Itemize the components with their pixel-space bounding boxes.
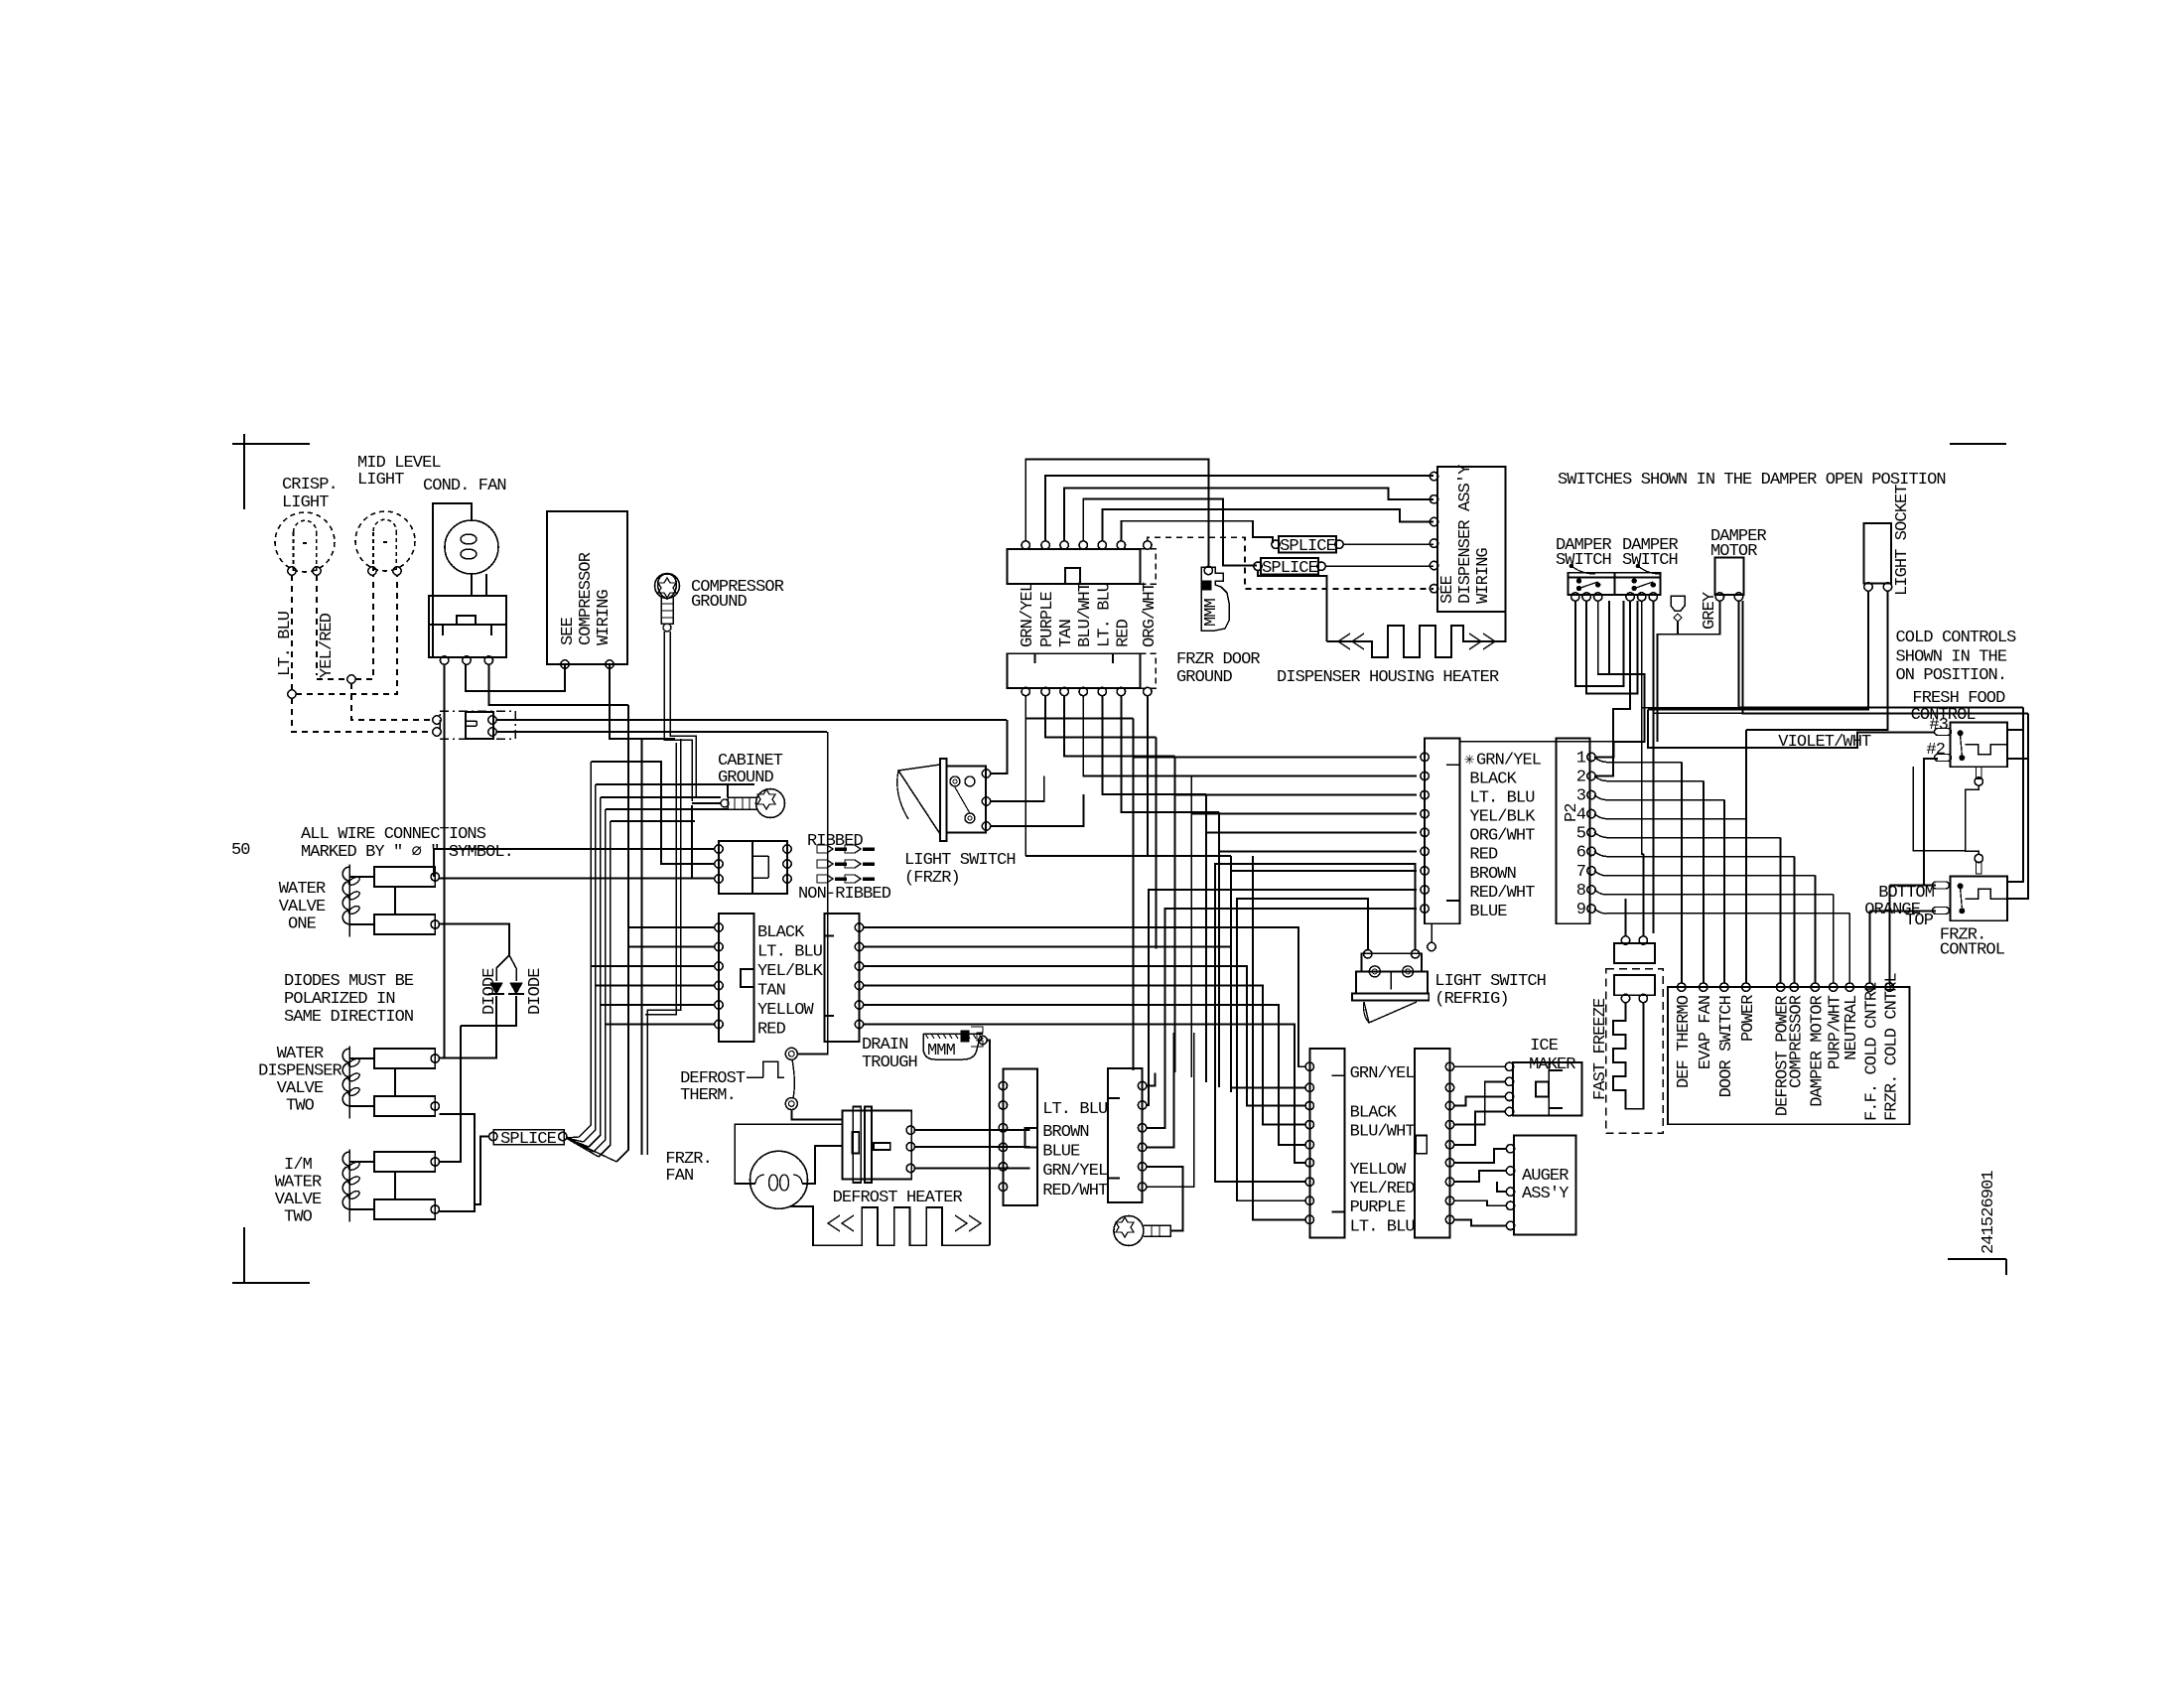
svg-text:ORG/WHT: ORG/WHT [1141,582,1160,647]
svg-text:PURPLE: PURPLE [1350,1198,1407,1217]
svg-text:BROWN: BROWN [1469,865,1516,884]
svg-text:WATER: WATER [275,1174,322,1193]
svg-text:BLU/WHT: BLU/WHT [1076,582,1095,647]
wire damper switch t6 long drop [1652,713,1654,933]
svg-text:SPLICE: SPLICE [1280,537,1336,556]
wire damper t4 down [1595,601,1630,776]
ground lug (evap ground) [1114,1216,1144,1246]
wire ribbed pin2 left [661,807,715,864]
svg-text:SEE: SEE [559,617,578,645]
svg-text:DISPENSER ASS'Y: DISPENSER ASS'Y [1456,465,1475,604]
svg-text:MARKED BY " ⌀ " SYMBOL.: MARKED BY " ⌀ " SYMBOL. [301,843,513,862]
svg-text:EVAP FAN: EVAP FAN [1697,996,1715,1069]
wire crisp light right dashed down [316,575,318,675]
svg-text:VALVE: VALVE [275,1191,322,1209]
svg-text:7: 7 [1576,863,1585,882]
svg-text:LT. BLU: LT. BLU [1042,1100,1107,1119]
svg-text:#2: #2 [1926,741,1945,760]
svg-text:NON-RIBBED: NON-RIBBED [798,885,891,904]
svg-text:WIRING: WIRING [1474,547,1493,604]
resistor defrost heater element [813,1207,990,1245]
wire light switch frzr t1 [991,720,1008,774]
wire corridor hook 5 [611,820,695,822]
wire bottom terminal left [1890,885,1937,887]
svg-text:DIODES MUST BE: DIODES MUST BE [284,972,414,991]
connector P2 [1556,738,1589,923]
wire valve one bottom to diode pair [440,924,510,956]
wire terminal board risers [1681,763,1683,983]
svg-text:LT. BLU: LT. BLU [757,943,822,962]
svg-text:YEL/RED: YEL/RED [1350,1180,1416,1198]
wire light switch frzr t2 [991,775,1044,801]
svg-text:DRAIN: DRAIN [862,1036,908,1055]
svg-text:YEL/RED: YEL/RED [318,613,337,678]
junction node [347,675,355,683]
wire splice to I/M valve [475,1137,488,1205]
svg-text:WATER: WATER [279,880,326,899]
terminal lug frzr top [1933,882,1950,889]
connector 7-pin lower [1008,653,1141,688]
svg-text:DAMPER MOTOR: DAMPER MOTOR [1808,995,1827,1106]
wire mid pin9 to auger5 [1454,1219,1507,1225]
svg-text:SEE: SEE [1438,575,1457,604]
wire lamp switch out 2 [496,731,827,733]
svg-text:50: 50 [231,841,250,860]
wire heater t2 right [915,1146,1030,1148]
wire diode D2 to I/M valve route [461,996,516,1026]
svg-text:SAME DIRECTION: SAME DIRECTION [284,1008,413,1027]
wire defrost therm riser [827,732,829,925]
wire grey to damper motor pin1 [1678,601,1719,634]
svg-text:✳: ✳ [1464,752,1474,771]
svg-text:LIGHT SWITCH: LIGHT SWITCH [1434,972,1546,991]
wire mid pin5 to ice pin4 [1454,1112,1506,1145]
svg-text:POWER: POWER [1739,995,1758,1042]
svg-text:DIODE: DIODE [526,968,545,1015]
wire weave to J1 pin1 [1133,718,1417,757]
wire weave to J1 pin9 [1164,909,1417,1033]
junction node [288,690,296,698]
svg-text:2: 2 [1576,769,1585,787]
svg-text:ASS'Y: ASS'Y [1522,1185,1569,1203]
svg-text:DISPENSER: DISPENSER [258,1062,341,1081]
wire frzr fan bottom to heater rail [790,1206,813,1227]
wire light socket left down [1648,591,1868,709]
wire mid pin6 to auger1 [1454,1149,1507,1163]
box SEE COMPRESSOR WIRING [547,511,627,664]
svg-text:RED: RED [1114,619,1133,647]
svg-text:YELLOW: YELLOW [1350,1161,1408,1180]
wire J1 to damper area [1460,741,1645,743]
wire 9-pin J1 stub down [1431,923,1433,943]
wire crisp light left dashed down (LT. BLU) [291,575,293,690]
wire bundle into splice S1 [566,1137,579,1138]
wire weave vertical drops right side [1132,718,1134,1070]
wire compressor t1 U t2 [466,664,565,691]
connector (ribbed/non-ribbed leads) [719,841,787,894]
wire damper t3 down to P2 area [1595,601,1645,757]
splice S2 [1279,536,1336,553]
wire pin3 TAN to dispenser pin2 [1064,489,1433,542]
svg-text:MMM: MMM [927,1042,956,1060]
svg-text:SWITCH: SWITCH [1622,551,1678,570]
wire auger3 jog [1497,1182,1506,1192]
svg-text:GRN/YEL: GRN/YEL [1042,1162,1108,1181]
svg-text:LIGHT: LIGHT [282,493,329,512]
heater block DEFROST HEATER [843,1110,912,1179]
wire 6pin pin5 left [601,1004,715,1006]
wire cond fan t3 right [488,664,628,705]
svg-text:BLUE: BLUE [1469,903,1507,921]
svg-text:COND. FAN: COND. FAN [423,477,506,495]
svg-text:ON POSITION.: ON POSITION. [1896,666,2007,685]
svg-text:BLACK: BLACK [757,923,805,942]
wire dashed LT.BLU down to lamp switch [292,698,433,732]
lamp socket LIGHT SOCKET [1864,523,1892,583]
wire light switch refrig up [1364,899,1368,950]
wire run BLACK to mid [864,927,1306,1066]
wire corridor hook 2 [596,783,692,785]
wire defrost therm bottom contact to heater [791,1110,842,1119]
wire fast freeze feeds up [1625,899,1627,936]
svg-text:AUGER: AUGER [1522,1167,1569,1186]
svg-text:LT. BLU: LT. BLU [1095,583,1114,647]
wire grey drop [1656,655,1658,742]
wire orange top terminal left [1869,910,1936,912]
switch paddle refrig [1364,1002,1417,1023]
connector 6-pin (left half) [719,914,754,1042]
wire light switch frzr t3 [991,794,1084,826]
wire drain trough to vertical [987,1041,990,1246]
switch paddle [898,765,940,834]
wire damper switch nested loops [1575,601,1624,686]
wire compressor ground pair to corridor [645,743,676,1015]
wire FF control right loop [2007,729,2023,731]
svg-text:DOOR SWITCH: DOOR SWITCH [1717,996,1736,1097]
wire weave to J1 pin2 [1157,737,1418,775]
wire run LT. BLU to mid [864,947,1306,1088]
wire compressor t2 right [610,664,675,739]
wire weave to J1 pin3 [1175,757,1417,795]
svg-text:YEL/BLK: YEL/BLK [1469,808,1536,827]
svg-text:(FRZR): (FRZR) [904,869,960,888]
connector 9-pin J1 [1425,738,1460,923]
svg-text:VALVE: VALVE [277,1079,324,1098]
connector 6-pin (right half) [825,914,860,1042]
svg-text:RED: RED [757,1021,786,1040]
splice S3 [1261,558,1318,575]
wire pin4 BLU/WHT to splice S3 [1083,498,1257,565]
svg-text:SHOWN IN THE: SHOWN IN THE [1896,648,2007,667]
svg-text:BROWN: BROWN [1042,1123,1089,1142]
wire water dispenser valve bottom [440,1114,476,1211]
svg-text:8: 8 [1576,882,1586,901]
svg-text:TAN: TAN [1057,620,1076,647]
box SEE DISPENSER ASS'Y WIRING [1437,467,1506,612]
wire mid pin8 to auger4 [1454,1200,1507,1205]
wire P2 runout horizontals [1606,762,1682,764]
terminal lug #3 [1935,729,1952,736]
wire pin6 RED to splice S2 [1121,521,1273,543]
wire dashed ORG/WHT loop [1148,537,1433,589]
svg-text:TWO: TWO [284,1208,313,1227]
wire dashed bottom run to mid lamp right leg [296,575,397,694]
svg-text:DEFROST HEATER: DEFROST HEATER [833,1189,963,1207]
svg-text:GROUND: GROUND [1176,668,1233,687]
wire run RED to mid [864,1025,1306,1163]
wire defrost therm top contact up [797,925,828,1054]
sheet corner marks [232,443,310,445]
terminal lug frzr bottom [1933,908,1950,914]
wire run YELLOW to mid [864,1005,1306,1145]
wire mid pin9 riser [1253,856,1305,1220]
wire compressor ground down [664,632,692,801]
wire pin2 PURPLE to dispenser pin1 [1045,476,1433,541]
svg-text:9: 9 [1576,901,1586,919]
svg-text:RED/WHT: RED/WHT [1042,1182,1108,1200]
svg-text:SPLICE: SPLICE [500,1130,557,1149]
switch (crisper/mid light switch) [440,711,515,739]
svg-text:DEF THERMO: DEF THERMO [1675,995,1694,1088]
star washer symbol [658,578,676,598]
wire corridor tops fan right [590,761,592,763]
svg-text:5: 5 [1576,824,1586,843]
wire ribbed pin1 left [434,849,715,877]
leader damper switch labels [1571,566,1595,574]
svg-text:NEUTRAL: NEUTRAL [1843,995,1861,1060]
svg-text:GROUND: GROUND [691,593,748,612]
wire dashed YEL/RED down to lamp switch [351,683,433,720]
wire heater t3 right [915,1168,1030,1170]
svg-text:ORG/WHT: ORG/WHT [1469,826,1535,845]
svg-text:F.F. COLD CNTRL: F.F. COLD CNTRL [1862,982,1881,1121]
cond fan connector block [429,596,506,657]
wire mid pin3 to ice pin3 [1454,1096,1506,1105]
wire corridor hook 4 [606,808,728,810]
wire corridor hook 1 [591,762,661,807]
wire org/wht long run [1025,855,1231,857]
wire P2 pin runouts [1594,757,1606,762]
svg-text:GRN/YEL: GRN/YEL [1476,751,1542,770]
svg-text:GREY: GREY [1701,592,1719,630]
svg-text:3: 3 [1576,787,1586,806]
wire damper switch t5 long drop [1642,708,1644,855]
svg-text:SWITCHES SHOWN IN THE DAMPER O: SWITCHES SHOWN IN THE DAMPER OPEN POSITI… [1558,471,1946,490]
svg-text:GRN/YEL: GRN/YEL [1019,582,1037,647]
terminal lug #2 [1935,755,1952,762]
svg-text:TOP: TOP [1905,912,1934,930]
svg-text:LT. BLU: LT. BLU [1350,1217,1415,1236]
wire corridor 646 from compressor [641,739,643,1155]
svg-text:FAN: FAN [665,1167,693,1186]
svg-text:RED: RED [1469,845,1498,864]
wire lamp switch out 1 [496,719,1007,721]
wire weave to J1 pin7 [1231,856,1417,871]
svg-text:BLUE: BLUE [1042,1142,1080,1161]
connector 9-pin pair right [1415,1049,1449,1238]
wire mid pin7 to auger2 [1454,1171,1507,1182]
wire weave to J1 pin5 [1206,794,1417,832]
wire 6pin pin3 left [591,965,715,967]
svg-text:FAST FREEZE: FAST FREEZE [1591,998,1610,1100]
svg-text:WATER: WATER [277,1045,324,1063]
wire FF control lug bottom S [1977,767,1982,778]
wire light socket left drop to weave [1647,709,1649,742]
svg-text:THERM.: THERM. [680,1086,736,1105]
svg-text:LT. BLU: LT. BLU [1469,789,1534,808]
wire splice S2 to dispenser pin4 [1343,543,1433,545]
svg-text:241526901: 241526901 [1979,1171,1998,1254]
svg-text:DISPENSER HOUSING HEATER: DISPENSER HOUSING HEATER [1277,668,1499,687]
wire damper motor pin2 down [1739,601,2024,708]
wire 6pin pin2 left [628,946,715,948]
svg-text:YEL/BLK: YEL/BLK [757,962,824,981]
svg-text:LIGHT SWITCH: LIGHT SWITCH [904,851,1016,870]
svg-text:1: 1 [1576,749,1586,768]
svg-text:(REFRIG): (REFRIG) [1434,990,1508,1009]
svg-text:BLACK: BLACK [1350,1104,1398,1123]
svg-text:LIGHT: LIGHT [357,471,404,490]
svg-text:RED/WHT: RED/WHT [1469,884,1535,903]
svg-text:FRZR. COLD CNTRL: FRZR. COLD CNTRL [1883,972,1902,1121]
svg-text:CONTROL: CONTROL [1940,941,2005,960]
wire damper t5 t6 down [1641,601,1643,708]
thermostat FRZR. CONTROL [1951,877,2007,921]
terminal board (DEF THERMO .. FRZR. COLD CNTRL) [1668,987,1910,1124]
wire pin1 GRN/YEL to frzr door ground [1025,460,1208,567]
wire 6pin pin6 left [606,1024,715,1026]
wire 6pin pin1 left to corridor [628,926,715,928]
connector 6-pin right column (left half) [1003,1069,1037,1206]
wire mid pin1 to ice pin1 [1454,1065,1506,1067]
svg-text:ONE: ONE [288,915,317,934]
wire I/M valve top terminal route [440,1026,462,1162]
svg-text:6: 6 [1576,843,1586,862]
wire 6pin pin4 left [596,985,715,987]
svg-text:TROUGH: TROUGH [862,1054,917,1072]
connector 6-pin right column (right half) [1108,1068,1143,1202]
connector 9-pin pair left [1309,1049,1344,1238]
wire violet/wht to #3 [1648,732,1934,748]
wire run YEL/BLK to mid [864,966,1306,1106]
wire diode V split [496,955,509,981]
motor AUGER ASS'Y [1514,1136,1576,1235]
wire weave to J1 pin8 [1149,890,1417,1033]
wire light socket right down [1746,591,1888,730]
wire cabinet ground upper [727,784,729,797]
svg-text:POLARIZED IN: POLARIZED IN [284,990,395,1009]
svg-text:FRZR DOOR: FRZR DOOR [1176,650,1260,669]
svg-text:PURPLE: PURPLE [1038,591,1057,647]
wire pin5 LT. BLU to dispenser pin3 [1102,509,1433,541]
svg-text:YELLOW: YELLOW [757,1001,815,1020]
wire weave to J1 pin4 [1191,775,1417,813]
wire FF control aux vertical [1913,767,1965,851]
wire mid pin8 from light switch refrig [1237,899,1364,1200]
connector 7-pin upper [1008,549,1141,584]
wire heater t1 right [915,1129,1030,1131]
wire evap ground right up [1147,1167,1183,1231]
svg-text:COMPRESSOR: COMPRESSOR [577,552,596,645]
svg-text:GRN/YEL: GRN/YEL [1350,1064,1416,1083]
svg-text:ALL WIRE CONNECTIONS: ALL WIRE CONNECTIONS [301,825,486,844]
svg-text:I/M: I/M [284,1156,313,1175]
wire run TAN to mid [864,986,1306,1125]
svg-text:TWO: TWO [286,1097,315,1116]
svg-text:WIRING: WIRING [595,589,614,645]
svg-text:SWITCH: SWITCH [1556,551,1611,570]
svg-text:COLD CONTROLS: COLD CONTROLS [1896,629,2017,647]
wire mid pin7 from light switch refrig [1215,864,1412,1182]
wire cond fan t1 down to valve row [444,664,446,1058]
wire #2 loop down [1924,759,1938,886]
wires right connector pins right [1147,1072,1156,1085]
terminal lugs middle row [817,860,833,868]
wire valve one top to ribbed pin3 [440,877,716,879]
wire weave to J1 pin6 [1219,812,1417,851]
svg-text:4: 4 [1576,806,1586,825]
wire cabinet ground to ribbed [692,802,721,804]
svg-text:VALVE: VALVE [279,898,326,916]
wire frzr fan left loop [735,1124,842,1184]
svg-text:CRISP.: CRISP. [282,476,338,494]
wire splice S3 to dispenser pin5 [1325,565,1433,567]
svg-text:BLACK: BLACK [1469,771,1517,789]
svg-text:MMM: MMM [1202,598,1221,627]
svg-text:LIGHT SOCKET: LIGHT SOCKET [1893,485,1912,596]
wire mid pin4 to ice pin2 [1454,1081,1506,1124]
svg-text:COMPRESSOR: COMPRESSOR [1787,995,1806,1088]
svg-text:MAKER: MAKER [1529,1055,1575,1074]
wire weave verticals from lower connector [1025,696,1133,719]
splice S1 [493,1130,564,1145]
svg-text:TAN: TAN [757,982,785,1001]
svg-text:BLU/WHT: BLU/WHT [1350,1123,1416,1142]
wire corridor hook 3 [601,796,721,798]
wire frzr fan right to heater block [802,1146,843,1184]
wire corridor verticals upper hooks [596,783,754,785]
wire diode D1 to water dispenser valve top [440,996,497,1058]
terminal lugs ribbed row [817,845,833,853]
svg-text:ICE: ICE [1530,1037,1559,1055]
wire dashed horizontal to mid lamp left leg [317,678,347,680]
terminal lugs non-ribbed row [817,875,833,883]
wire fast freeze riser [1625,899,1627,936]
